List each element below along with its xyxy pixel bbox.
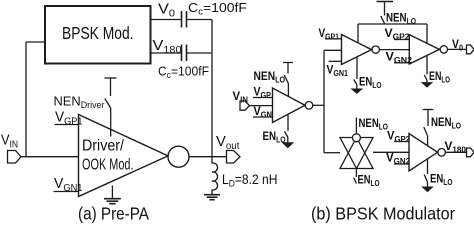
inverter U6 xyxy=(409,134,438,172)
wire VGP lead xyxy=(253,97,273,99)
wire blade to U6 top xyxy=(427,136,429,146)
switch NEN_LO U6 blade xyxy=(424,127,428,136)
wire rail drop to U3 top xyxy=(357,24,359,43)
ground under LD xyxy=(204,194,220,196)
switch EN_LO bowtie xyxy=(355,169,357,178)
input port arrow VIN (b) xyxy=(240,101,250,110)
input port arrow VIN (a) xyxy=(8,151,22,164)
wire output xyxy=(189,156,227,158)
inverter U3 xyxy=(342,35,372,65)
wire into box input xyxy=(26,41,45,43)
svg-text:Driver/: Driver/ xyxy=(82,138,125,155)
svg-text:(b) BPSK Modulator: (b) BPSK Modulator xyxy=(311,204,455,224)
switch NEN_LO rail blade xyxy=(381,16,385,24)
inverter U2 bubble xyxy=(305,102,313,110)
wire caps bus vertical down to output node xyxy=(211,20,213,157)
wire junction vertical to box xyxy=(25,42,27,157)
svg-text:(a) Pre-PA: (a) Pre-PA xyxy=(78,204,149,224)
wire VGN2 U6 lead xyxy=(394,163,409,165)
wire Cc1 to vertical xyxy=(187,19,213,21)
switch NEN_LO U2 blade xyxy=(284,75,288,84)
svg-text:BPSK Mod.: BPSK Mod. xyxy=(62,23,134,43)
output port arrow V180 xyxy=(467,148,474,157)
switch EN_LO U2 xyxy=(287,114,289,131)
output port arrow V0 xyxy=(467,45,474,54)
switch NEN_Driver terminal T xyxy=(105,77,117,79)
wire V0 stub xyxy=(151,19,182,21)
wire U3 output to U4 input xyxy=(379,49,409,51)
wire VGN1 lead xyxy=(329,60,342,62)
wire VGP2 U6 lead xyxy=(394,141,409,143)
svg-text:OOK Mod.: OOK Mod. xyxy=(82,157,134,174)
wire U2 output to junction xyxy=(313,104,324,106)
wire switch to driver top xyxy=(110,108,112,137)
ground arrow EN_LO U2 xyxy=(283,143,292,147)
output circle (pad) xyxy=(168,146,189,167)
bowtie inverting gate U5 lower triangle xyxy=(340,138,373,169)
wire blade to U2 top xyxy=(287,84,289,97)
wire VGP2 lead xyxy=(394,39,409,41)
wire U6 output xyxy=(445,151,466,153)
ground arrow EN_LO U6 xyxy=(423,187,432,191)
bowtie control bubble xyxy=(352,134,360,142)
wire Cc2 to vertical xyxy=(187,52,213,54)
ground arrow EN_LO U4 xyxy=(423,83,432,87)
switch NEN_LO U2 terminal xyxy=(283,62,293,64)
wire bowtie output to U6 xyxy=(373,151,409,153)
wire VGN2 lead xyxy=(394,62,409,64)
wire NEN rail horizontal xyxy=(358,23,427,25)
inverter U4 xyxy=(409,35,439,64)
op-amp driver triangle (Driver/OOK Mod) xyxy=(79,115,169,197)
block BPSK Mod. U1 xyxy=(45,6,151,64)
wire VGN1 lead xyxy=(54,191,79,193)
wire VIN to inverter U2 xyxy=(250,105,273,107)
wire U4 output xyxy=(448,48,467,50)
wire VGP1 lead xyxy=(325,38,342,40)
ground under driver xyxy=(111,186,113,199)
capacitor Cc1 xyxy=(181,11,183,28)
wire V180 stub xyxy=(151,52,182,54)
bowtie inverting gate U5 upper triangle xyxy=(340,138,373,169)
wire junction vertical xyxy=(323,50,325,152)
wire to bowtie input xyxy=(324,152,340,154)
inverter U4 bubble xyxy=(440,46,447,53)
switch NEN_LO rail terminal xyxy=(377,1,394,3)
capacitor Cc2 xyxy=(181,45,183,62)
switch EN_LO U3 xyxy=(356,56,358,79)
wire VIN to junction xyxy=(21,156,79,158)
output port arrow Vout xyxy=(227,151,241,164)
wire to inverter U3 input xyxy=(324,49,342,51)
wire VGP1 lead xyxy=(55,124,79,126)
wire rail drop to U4 top xyxy=(426,24,428,43)
inverter U2 (input) xyxy=(273,88,306,123)
switch NEN_LO U6 terminal xyxy=(423,109,433,111)
switch EN_LO U4 xyxy=(426,56,428,75)
ground arrow EN_LO U3 xyxy=(352,89,361,93)
switch EN_LO U6 xyxy=(427,159,429,174)
svg-text:Cc=100fF: Cc=100fF xyxy=(188,0,247,17)
wire NEN_LO to bowtie bubble xyxy=(355,118,357,134)
inductor LD xyxy=(212,157,218,195)
wire VGN lead xyxy=(253,116,273,118)
svg-text:Cc=100fF: Cc=100fF xyxy=(158,64,209,81)
inverter U3 bubble xyxy=(372,46,379,53)
switch NEN_Driver blade xyxy=(105,99,111,109)
inverter U6 bubble xyxy=(438,149,446,157)
